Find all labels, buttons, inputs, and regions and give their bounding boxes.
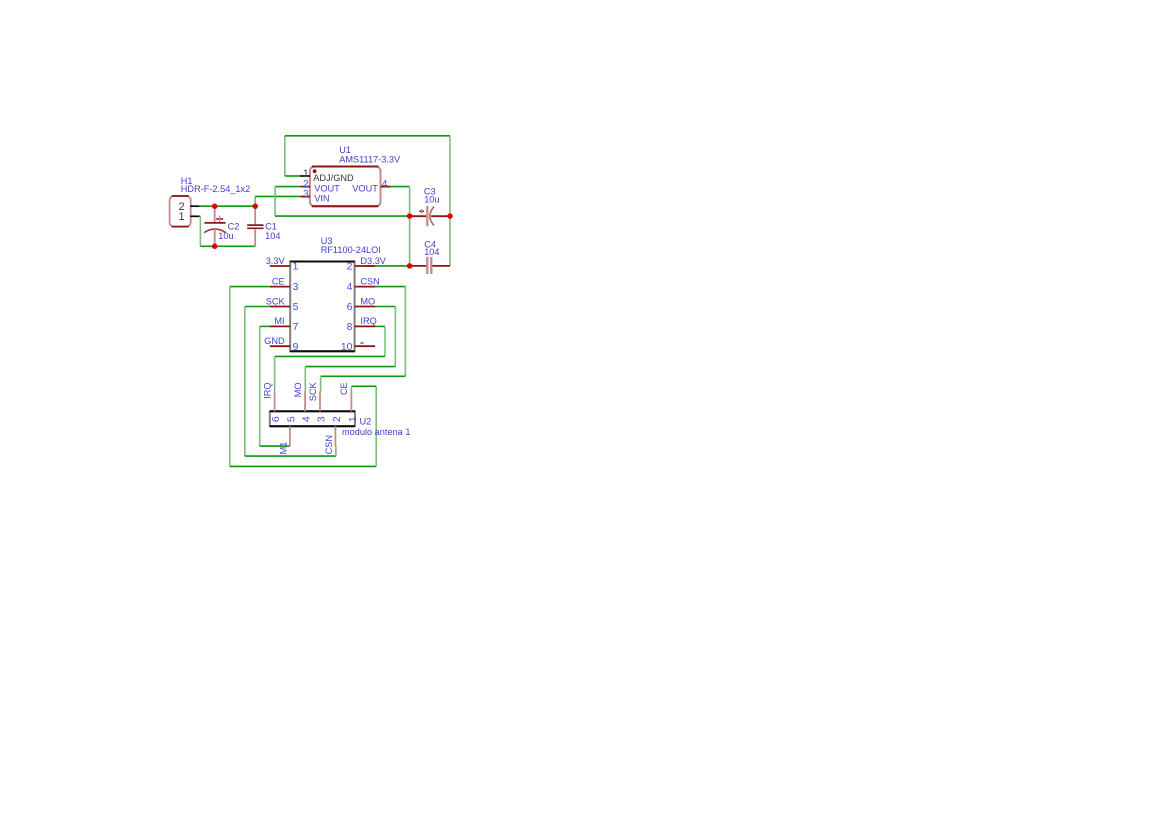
wire net CE to U2.1: [351, 385, 376, 387]
svg-text:2: 2: [347, 262, 353, 273]
U3 pin 4 stub: [355, 286, 375, 288]
wire net CSN from U3.4: [375, 286, 405, 288]
U3 pin 7 stub: [270, 325, 290, 327]
svg-text:CE: CE: [272, 276, 285, 286]
wire net MO right vertical: [394, 307, 396, 367]
svg-text:10u: 10u: [218, 231, 233, 241]
wire net MI bottom to U2.5: [260, 445, 290, 447]
svg-text:C1: C1: [265, 221, 277, 231]
U2 pin 6 stub: [274, 392, 276, 412]
capacitor C4 left plate: [426, 257, 428, 274]
svg-text:4: 4: [382, 179, 388, 190]
wire net SCK rise to U2.2 stub: [335, 446, 337, 456]
wire net CE from U3.3: [230, 286, 270, 288]
junction dot D3.3V/C4: [407, 263, 413, 269]
U1 pin 1 dot marker: [313, 169, 317, 173]
wire net IRQ from U3.8: [375, 325, 385, 327]
wire net MO from U3.6: [375, 306, 395, 308]
capacitor C1 bottom plate: [247, 227, 263, 229]
H1 pin 2 stub: [190, 205, 199, 207]
svg-text:1: 1: [293, 262, 299, 273]
U2 pin 3 stub: [319, 392, 321, 412]
wire net D3.3V from U3.2 to C4: [365, 265, 410, 267]
svg-text:VIN: VIN: [314, 193, 329, 203]
svg-text:SCK: SCK: [308, 382, 318, 402]
capacitor C2 bottom lead: [214, 229, 216, 246]
U3 pin 10 stub: [355, 345, 375, 347]
svg-text:1: 1: [179, 211, 185, 223]
U3 pin 3 stub: [270, 286, 290, 288]
svg-text:MO: MO: [360, 296, 375, 306]
junction dot C2/GND bottom: [212, 244, 218, 250]
svg-text:6: 6: [271, 416, 282, 422]
svg-text:GND: GND: [264, 336, 285, 346]
wire net SCK from U3.5: [245, 306, 270, 308]
wire net IRQ drop to U2.6 stub: [274, 356, 276, 391]
svg-text:IRQ: IRQ: [360, 316, 376, 326]
svg-text:3: 3: [303, 189, 309, 200]
junction dot VOUT/C3: [407, 213, 413, 219]
U2 pin 2 stub: [334, 426, 336, 446]
U1 pin 1 stub: [300, 175, 310, 177]
svg-text:MI: MI: [274, 316, 284, 326]
wire net IRQ right vertical: [384, 326, 386, 356]
capacitor C2 curved plate: [204, 229, 226, 233]
svg-text:1: 1: [348, 416, 359, 422]
svg-text:10u: 10u: [424, 194, 439, 204]
U3 pin 8 stub: [355, 325, 375, 327]
U2 pin 4 stub: [304, 392, 306, 412]
svg-text:5: 5: [287, 416, 298, 422]
svg-text:U2: U2: [360, 416, 372, 426]
wire net GND bottom to C1: [200, 245, 255, 247]
wire net GND vertical: [199, 216, 201, 246]
svg-text:VOUT: VOUT: [352, 184, 378, 194]
wire net N$1 to U1 VIN: [255, 195, 300, 197]
capacitor C4 right lead: [432, 265, 450, 267]
svg-text:C2: C2: [228, 221, 240, 231]
capacitor C1 top plate: [247, 224, 263, 226]
svg-text:U1: U1: [339, 145, 351, 155]
wire net VOUT from U1.4: [390, 186, 409, 188]
junction dot H1.2/C2: [212, 203, 218, 209]
wire net IRQ horizontal: [275, 355, 385, 357]
capacitor C2 top plate: [204, 222, 225, 224]
svg-text:RF1100-24LOI: RF1100-24LOI: [321, 245, 381, 255]
svg-text:IRQ: IRQ: [262, 382, 272, 398]
voltage regulator U1 body: [310, 167, 381, 207]
U1 pin 3 stub: [300, 196, 310, 198]
U3 pin 9 stub: [270, 345, 290, 347]
junction dot C1 top: [252, 203, 258, 209]
U1 pin 2 stub: [300, 186, 310, 188]
wire net CE right vertical: [375, 386, 377, 466]
capacitor C1 bottom lead: [254, 229, 256, 246]
H1 pin 1 stub: [190, 215, 199, 217]
wire net MO drop to U2.4 stub: [304, 367, 306, 392]
IC U3 body: [290, 262, 354, 352]
U3 pin 1 stub: [270, 265, 290, 267]
capacitor C3 straight plate: [426, 206, 428, 226]
wire net ADJ right vertical to C4: [449, 136, 451, 266]
capacitor C3 left lead: [410, 215, 427, 217]
U1 pin 4 stub: [381, 186, 391, 188]
wire net CSN drop to U2.3 stub: [320, 376, 322, 391]
svg-text:D3.3V: D3.3V: [360, 256, 386, 266]
U3 pin 2 stub: [355, 265, 375, 267]
wire net ADJ top horizontal: [285, 135, 450, 137]
svg-text:3: 3: [317, 416, 328, 422]
svg-text:2: 2: [332, 416, 343, 422]
capacitor C4 left lead: [410, 265, 427, 267]
U2 pin 5 stub: [289, 426, 291, 446]
wire net VOUT vertical left: [274, 187, 276, 217]
junction dot C3 right / ADJ net: [447, 213, 453, 219]
wire net N$1 vertical up from junction B: [254, 196, 256, 206]
wire net MO horizontal: [305, 366, 395, 368]
wire net CSN horizontal: [321, 375, 406, 377]
svg-text:7: 7: [293, 322, 299, 333]
wire net CSN right vertical: [404, 287, 406, 377]
U3 pin 6 stub: [355, 306, 375, 308]
svg-text:4: 4: [302, 416, 313, 422]
wire net ADJ vertical at U1.1: [284, 136, 286, 176]
U2 pin 1 stub: [350, 392, 352, 412]
svg-text:CE: CE: [339, 382, 349, 395]
wire net SCK bottom horizontal: [245, 455, 336, 457]
wire net N$1 H1.2 to junction A: [199, 205, 255, 207]
svg-text:104: 104: [424, 247, 439, 257]
wire net GND from H1.1 down: [199, 215, 200, 217]
wire net CE bottom horizontal: [230, 465, 376, 467]
svg-text:1: 1: [303, 168, 308, 179]
U3 pin 10 net dash: [360, 342, 363, 344]
svg-text:8: 8: [347, 322, 353, 333]
svg-text:SCK: SCK: [266, 296, 286, 306]
capacitor C2 plus sign: [216, 218, 223, 220]
svg-text:MO: MO: [293, 382, 303, 397]
wire net CE drop to U2.1 stub: [350, 386, 352, 391]
capacitor C3 right lead: [431, 215, 450, 217]
module U2 body: [270, 411, 355, 426]
svg-text:ADJ/GND: ADJ/GND: [313, 173, 354, 183]
svg-text:4: 4: [347, 282, 353, 293]
capacitor C1 top lead: [254, 206, 256, 224]
svg-text:6: 6: [347, 302, 353, 313]
svg-text:9: 9: [293, 342, 299, 353]
connector H1 body: [170, 196, 191, 227]
svg-text:VOUT: VOUT: [314, 184, 340, 194]
wire net CE left vertical: [229, 287, 231, 467]
capacitor C3 curved plate: [430, 207, 434, 226]
svg-text:3.3V: 3.3V: [266, 256, 286, 266]
wire net VOUT rail to C3: [275, 215, 410, 217]
wire net MI from U3.7: [260, 325, 270, 327]
svg-text:modulo antena 1: modulo antena 1: [342, 427, 410, 437]
wire net SCK vertical: [244, 307, 246, 457]
capacitor C4 right plate: [430, 257, 432, 274]
svg-text:CSN: CSN: [324, 435, 334, 454]
svg-text:M1: M1: [279, 442, 289, 455]
svg-text:AMS1117-3.3V: AMS1117-3.3V: [339, 154, 401, 164]
wire net VOUT vertical at C3/C4: [409, 187, 411, 266]
wire net ADJ into U1 pin 1: [285, 175, 300, 177]
svg-text:CSN: CSN: [360, 276, 379, 286]
wire net MI vertical: [259, 326, 261, 446]
wire net VOUT from U1.2: [275, 186, 300, 188]
U3 pin 5 stub: [270, 306, 290, 308]
capacitor C3 plus sign: [419, 210, 424, 212]
svg-text:5: 5: [293, 302, 299, 313]
svg-text:3: 3: [293, 282, 299, 293]
svg-text:10: 10: [341, 342, 353, 353]
capacitor C2 top lead: [214, 206, 216, 222]
svg-text:104: 104: [265, 231, 280, 241]
svg-text:HDR-F-2.54_1x2: HDR-F-2.54_1x2: [181, 184, 250, 194]
